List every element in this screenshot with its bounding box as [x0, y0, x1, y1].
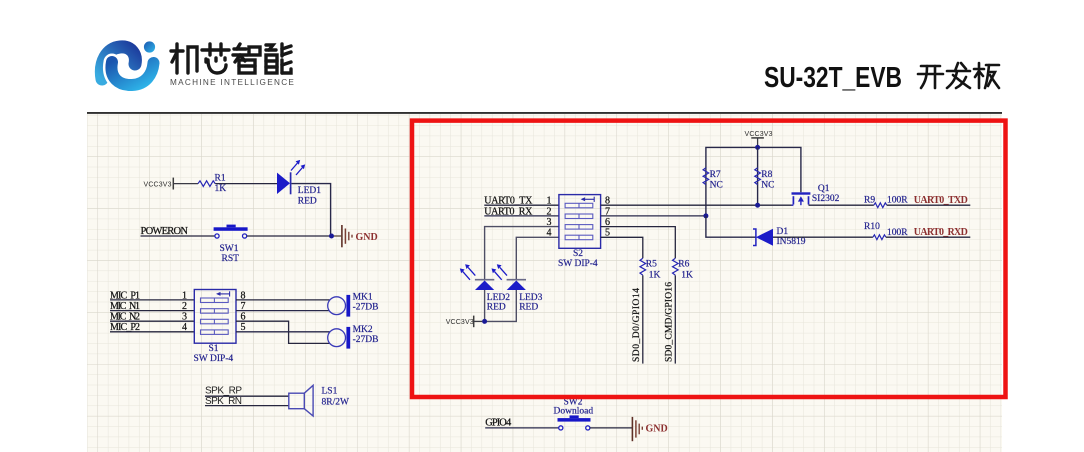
dip switch S1 [194, 290, 237, 365]
grid background [87, 114, 1002, 452]
resistor R1 [198, 174, 226, 195]
wire Q1 to R9 [809, 204, 874, 206]
wire S2 pin6 to R6 [601, 227, 676, 259]
wire D1 row left [706, 216, 756, 237]
wire LED3 to VCC rail corner [487, 290, 516, 321]
svg-text:IN5819: IN5819 [777, 237, 806, 247]
wire LED2 to VCC rail [484, 290, 486, 321]
能 [266, 44, 291, 73]
power port VCC3V3 (left) [144, 178, 174, 190]
header separator line [87, 112, 1002, 114]
power port VCC3V3 (LEDs) [446, 316, 483, 328]
wire S2 pin4 to LED3 [516, 237, 559, 279]
diode D1 [753, 227, 806, 247]
wire MIC_P2 [110, 331, 194, 333]
transistor Q1 [792, 184, 840, 205]
wire SPK_RN [205, 405, 289, 407]
板 [974, 63, 999, 88]
svg-text:100R: 100R [887, 196, 908, 206]
wire R9 to UART0_TXD [887, 204, 971, 206]
wire R1 to LED1 [215, 183, 277, 185]
resistor R5 [640, 258, 661, 280]
wire D1 to R10 [773, 236, 873, 238]
svg-text:R5: R5 [646, 259, 657, 269]
svg-text:SW DIP-4: SW DIP-4 [558, 259, 598, 269]
svg-text:UART0_TXD: UART0_TXD [914, 195, 968, 206]
svg-text:1K: 1K [215, 184, 227, 194]
wire junction to GND [334, 235, 341, 237]
svg-text:R1: R1 [215, 174, 226, 184]
svg-text:SW1: SW1 [220, 244, 239, 254]
svg-text:-27DB: -27DB [353, 335, 379, 345]
svg-text:S2: S2 [573, 249, 583, 259]
svg-text:GPIO4: GPIO4 [485, 417, 512, 428]
svg-text:VCC3V3: VCC3V3 [745, 131, 773, 138]
power port VCC3V3 (top) [745, 131, 773, 148]
svg-text:1: 1 [182, 290, 187, 301]
svg-text:SD0_CMD/GPIO16: SD0_CMD/GPIO16 [665, 282, 675, 362]
logo chinese wordmark 机芯智能 [171, 44, 291, 73]
svg-text:8R/2W: 8R/2W [322, 397, 349, 407]
svg-text:2: 2 [182, 301, 187, 312]
svg-text:NC: NC [761, 180, 774, 190]
svg-text:-27DB: -27DB [353, 303, 379, 313]
svg-text:RST: RST [222, 254, 240, 264]
svg-text:UART0_RXD: UART0_RXD [914, 227, 968, 238]
svg-text:3: 3 [182, 312, 187, 323]
wire GPIO4 to SW2 [485, 427, 559, 429]
svg-text:GND: GND [646, 424, 668, 435]
svg-text:4: 4 [547, 228, 552, 239]
wire S1 pin7 to MK1 [236, 310, 329, 312]
svg-text:RED: RED [487, 303, 506, 313]
svg-text:MACHINE INTELLIGENCE: MACHINE INTELLIGENCE [170, 78, 295, 87]
wire SW1 to junction [247, 235, 331, 237]
智 [233, 44, 260, 73]
wire MIC_P1 [110, 299, 194, 301]
svg-text:S1: S1 [209, 344, 219, 354]
resistor R9 [864, 196, 908, 208]
logo mark [0, 0, 1084, 114]
switch SW2 [554, 398, 594, 431]
svg-text:1K: 1K [649, 271, 661, 281]
svg-text:GND: GND [356, 232, 378, 243]
svg-text:R7: R7 [710, 170, 721, 180]
svg-text:3: 3 [547, 217, 552, 228]
LED LED1 [277, 160, 321, 206]
svg-text:2: 2 [547, 206, 552, 217]
wire S1 pin5 to MK2 [236, 331, 330, 333]
wire R6 down (SD0_CMD) [674, 275, 676, 363]
svg-text:SU-32T_EVB: SU-32T_EVB [764, 62, 902, 94]
wire R10 to UART0_RXD [886, 236, 970, 238]
svg-text:Download: Download [554, 406, 594, 416]
logo dot [144, 41, 155, 52]
microphone MK2 [328, 325, 379, 349]
芯 [202, 44, 229, 73]
wire MIC_N1 [110, 310, 194, 312]
title 开发板 [918, 63, 999, 88]
wire S2 pin3 to LED2 [485, 227, 559, 280]
svg-text:LS1: LS1 [322, 386, 338, 396]
microphone MK1 [328, 292, 379, 316]
wire S2 pin8 row to Q1 [601, 204, 792, 206]
junction node VCC-LED [482, 319, 487, 324]
dip switch S2 [558, 195, 601, 270]
svg-text:D1: D1 [777, 227, 789, 237]
svg-text:1: 1 [547, 196, 552, 207]
wire S1 pin6 to MK2 (jog) [236, 321, 330, 343]
svg-text:1K: 1K [681, 271, 693, 281]
wire S2 pin7 row [601, 215, 706, 217]
wire VCC3V3 to R1 [173, 183, 198, 185]
svg-text:SW DIP-4: SW DIP-4 [194, 354, 234, 364]
wire UART0_TX to S2 pin1 [484, 204, 559, 206]
wire top rail [706, 147, 801, 216]
wire SW2 to GND [590, 427, 632, 429]
开 [918, 66, 943, 88]
svg-text:NC: NC [710, 180, 723, 190]
wire S2 pin5 to R5 [601, 237, 643, 258]
发 [947, 63, 970, 88]
resistor R7 [703, 168, 723, 191]
wire R8 branch [757, 147, 759, 205]
svg-text:RED: RED [519, 303, 538, 313]
resistor R10 [864, 222, 908, 240]
svg-text:VCC3V3: VCC3V3 [144, 181, 172, 188]
junction node pin8/R8 [755, 203, 760, 208]
wire SPK_RP [205, 395, 289, 397]
svg-text:R6: R6 [678, 259, 689, 269]
svg-text:100R: 100R [887, 228, 908, 238]
svg-text:RED: RED [298, 196, 317, 206]
logo swirl left wave [101, 47, 135, 79]
logo swirl right wave [111, 62, 153, 85]
junction node A [329, 234, 334, 239]
wire R5 down (SD0_D0) [642, 275, 644, 363]
svg-text:LED1: LED1 [298, 186, 321, 196]
svg-text:SD0_D0/GPIO14: SD0_D0/GPIO14 [632, 288, 642, 362]
svg-text:R10: R10 [864, 222, 880, 232]
wire MIC_N2 [110, 320, 194, 322]
svg-text:R9: R9 [864, 196, 875, 206]
wire LED1 to corner down to junction [292, 184, 331, 236]
wire UART0_RX to S2 pin2 [484, 215, 559, 217]
svg-text:VCC3V3: VCC3V3 [446, 319, 474, 326]
ground GND (download) [632, 417, 667, 441]
svg-text:SI2302: SI2302 [812, 194, 840, 204]
svg-text:R8: R8 [761, 170, 772, 180]
svg-text:Q1: Q1 [818, 184, 830, 194]
switch SW1 [214, 225, 248, 264]
svg-text:MK1: MK1 [353, 292, 373, 302]
wire S1 pin8 to MK1 [236, 299, 330, 301]
junction node pin7/R7/D1 [703, 213, 708, 218]
speaker LS1 [289, 385, 349, 416]
svg-text:4: 4 [182, 322, 187, 333]
junction node VCC rail [755, 145, 760, 150]
svg-text:LED2: LED2 [487, 293, 510, 303]
ground GND (power on) [342, 225, 378, 247]
LED LED2 [460, 264, 510, 312]
red highlight box [412, 121, 1006, 397]
svg-text:LED3: LED3 [519, 293, 542, 303]
resistor R6 [673, 258, 694, 280]
LED LED3 [492, 264, 543, 312]
svg-text:MK2: MK2 [353, 325, 373, 335]
wire POWERON to SW1 [141, 235, 216, 237]
resistor R8 [755, 168, 775, 191]
机 [171, 44, 197, 73]
